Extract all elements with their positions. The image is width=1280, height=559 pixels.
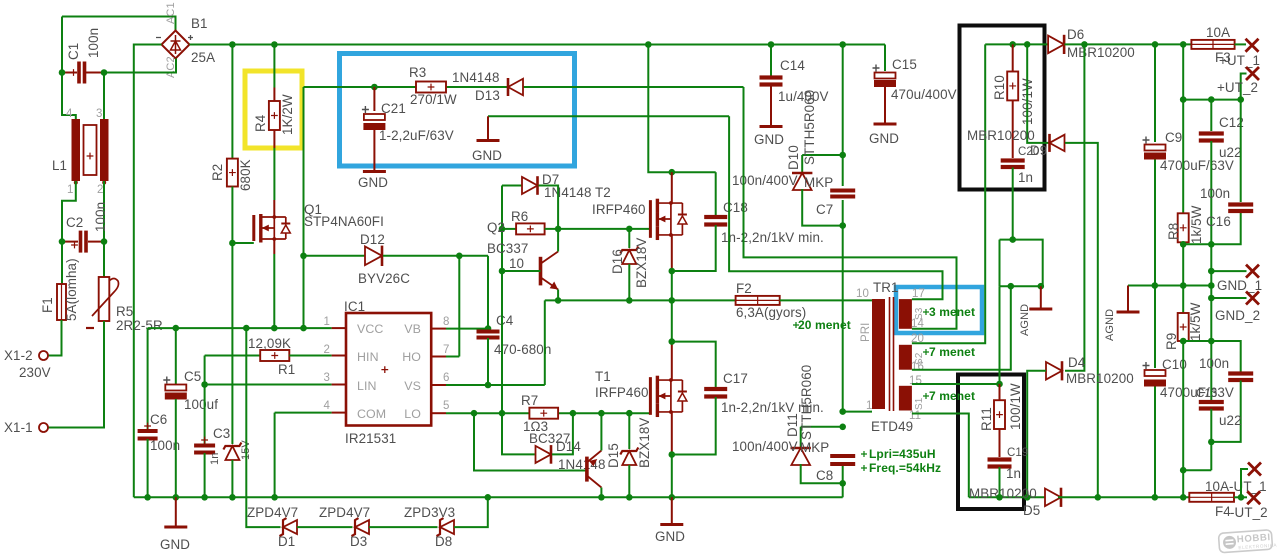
wire IC1 pin 6 stub [431,384,446,386]
svg-text:7: 7 [443,344,450,356]
svg-text:5A(lomha): 5A(lomha) [64,258,79,321]
wire AGND 2 stem [1127,286,1129,313]
wire minus rail left [969,496,1048,498]
svg-text:C8: C8 [816,468,833,483]
thermistor R5 [99,277,110,321]
svg-text:LO: LO [404,407,421,421]
svg-text:+UT_1: +UT_1 [1219,53,1260,68]
origin cross C1 [70,69,77,76]
svg-text:GND: GND [358,175,388,190]
svg-text:GND: GND [754,132,784,147]
wire +UT_2 row [1183,99,1241,101]
svg-text:4: 4 [66,108,73,120]
svg-text:4700uF/63V: 4700uF/63V [1160,158,1234,173]
pad +UT_2 [1246,67,1259,80]
node C2 right junction [101,238,108,245]
svg-text:X1-1: X1-1 [4,420,33,435]
wire rail to C9 [1154,44,1156,142]
node R10 rail junction [1009,41,1016,48]
resistor R6 [516,223,545,234]
node D4 bus junction [1024,494,1031,501]
svg-text:VCC: VCC [357,322,383,336]
wire zener chain left [246,328,280,527]
wire C1 to L1 pin 4 [62,73,76,120]
svg-text:T2: T2 [595,185,611,200]
node VCC R3 junction [300,325,307,332]
svg-text:1k/5W: 1k/5W [1189,205,1204,244]
svg-text:GND_2: GND_2 [1215,308,1260,323]
svg-text:C16: C16 [1206,214,1231,229]
capacitor C21 [364,114,385,120]
diode D7 [522,177,538,194]
svg-text:11: 11 [909,410,921,422]
wire bus to GND stem [175,497,177,527]
wire Q2 base column [501,186,503,455]
transistor Q2 [539,257,543,286]
wire link to minus rail [1183,469,1211,471]
node R11 top junction [996,381,1003,388]
fuse F1 [57,284,66,320]
svg-text:TR1: TR1 [873,280,899,295]
svg-text:MBR10200: MBR10200 [1066,371,1134,386]
node Q2 base junction [499,268,506,275]
wire F1 to X1-2 [48,320,62,356]
node C16 column junction [1237,96,1244,103]
wire T1 source to bus [671,455,673,498]
svg-text:MBR10200: MBR10200 [967,128,1035,143]
origin cross Lpri [861,451,867,457]
node F4 pad junction [1238,494,1245,501]
wire D7 anode [502,185,522,187]
blue highlight box around R3 C21 D13 [340,54,575,167]
wire filter node to L1 pin 3 [103,73,105,120]
wire T2 drain [671,172,673,204]
diode D5 [1045,489,1061,507]
node C2 left junction [59,238,66,245]
svg-text:6: 6 [443,372,450,384]
diode D10 [793,173,812,190]
svg-text:Q2: Q2 [487,220,505,235]
resistor R11 [994,400,1005,429]
wire C14 to GND [770,85,772,127]
wire COM row to IC1 pin 4 [275,412,332,414]
bridge rectifier B1 [162,31,190,59]
wire D4 anode to minus rail [1027,371,1046,498]
node source VCC junction [271,325,278,332]
transformer TR1 [872,299,885,409]
zener diode D2 15V [225,446,239,460]
wire GND to S3 pin 17 [729,116,942,299]
node C5 bus junction [173,494,180,501]
wire to D16 [628,229,630,248]
fuse F4 [1189,493,1234,502]
svg-text:GND: GND [869,131,899,146]
wire R1 left [205,355,261,357]
wire S1 pin 11 down [912,414,969,498]
node pin8 C4 junction [485,325,492,332]
svg-text:12,09K: 12,09K [248,336,291,351]
wire down to C3 [204,385,206,446]
zener diode D3 [355,520,369,534]
diode D14 [536,446,552,463]
svg-text:MKP: MKP [800,440,829,455]
wire D8 to bus [454,497,488,527]
wire Q2 emitter to mid rail [557,290,559,301]
wire R9 to minus rail [1182,341,1184,497]
wire R8 to R9 [1182,242,1184,313]
wire gnd net row [488,115,729,117]
node C5 top junction [173,325,180,332]
svg-text:D6: D6 [1067,27,1084,42]
wire rail to C14 [770,45,772,76]
ground symbol left [164,526,187,529]
zener diode D8 [440,520,454,534]
wire C20 bottom lead [1012,168,1014,240]
svg-text:STP4NA60FI: STP4NA60FI [304,214,384,229]
svg-text:COM: COM [357,407,386,421]
wire T1 source [671,411,673,455]
svg-text:PRI: PRI [860,323,872,342]
wire T2 source [671,234,673,271]
svg-text:ZPD3V3: ZPD3V3 [404,505,455,520]
svg-text:7 menet: 7 menet [929,345,975,359]
ground symbol under C21 [363,170,386,173]
svg-text:B1: B1 [191,16,208,31]
node GND_1 junction [1208,268,1215,275]
svg-text:L1: L1 [52,158,67,173]
wire IC1 pin 8 stub [431,328,446,330]
wire rail corner to C15 [884,45,886,72]
origin cross 7 menet S2 [923,349,929,355]
wire D11 bottom loop [801,464,843,483]
transistor driver PNP [585,457,589,482]
svg-text:1n: 1n [209,453,221,465]
svg-text:C1: C1 [66,43,81,60]
wire half-bridge mid rail [545,299,736,301]
wire D14 cathode loop [552,413,573,454]
wire R11 top lead [999,384,1001,400]
node base drive junction [471,410,478,417]
zener diode D16 [622,250,636,264]
svg-text:ETD49: ETD49 [871,419,913,434]
svg-text:4: 4 [324,400,331,412]
wire bus to GND center [671,497,673,524]
capacitor C14 [760,75,783,79]
node R8 bottom junction [1180,241,1187,248]
svg-text:R7: R7 [521,393,538,408]
capacitor C22 u22 [1199,400,1224,404]
wire COM down to bus [274,413,276,498]
node T1 drain junction [669,338,676,345]
pad GND_1 [1246,265,1259,278]
svg-text:1: 1 [866,400,873,412]
wire D13 to S3 pin 14 [744,87,957,329]
svg-text:D3: D3 [350,534,367,549]
wire L1 pin 2 to C2 right [103,181,105,242]
svg-text:1k/5W: 1k/5W [1188,302,1203,341]
wire D15 to bus [628,465,630,497]
capacitor C3 [194,444,215,448]
svg-text:D5: D5 [1023,503,1040,518]
svg-text:+UT_2: +UT_2 [1217,80,1258,95]
node R8 rail junction [1180,41,1187,48]
wire R6 to T2 gate [545,228,651,230]
wire S2 pin 20 to rectifier rail [912,44,985,343]
wire C2 right lead [88,241,104,243]
svg-text:C19: C19 [1007,447,1028,459]
wire VS row [446,384,545,386]
node LIN junction [201,381,208,388]
svg-text:C13: C13 [1196,388,1217,400]
wire D6 to fuse F3 [1065,43,1192,45]
node AGND junction b [1038,283,1045,290]
wire C1 right lead [86,72,104,74]
svg-text:u22: u22 [1219,413,1242,428]
svg-text:17: 17 [912,288,925,300]
wire D10 bottom loop [802,189,843,226]
svg-text:1n: 1n [1018,170,1033,185]
node T1 bus junction [669,494,676,501]
diode D12 [365,246,382,265]
svg-text:100n: 100n [93,202,108,232]
svg-text:230V: 230V [19,365,51,380]
svg-text:D1: D1 [278,534,295,549]
wire IC1 pin 7 stub [431,356,446,358]
svg-text:6,3A(gyors): 6,3A(gyors) [736,305,806,320]
wire C16 top lead [1240,100,1242,202]
node zener chain junction [243,325,250,332]
capacitor C18 [704,215,727,219]
node D2 bus junction [229,494,236,501]
svg-text:X1-2: X1-2 [4,348,33,363]
diode D6 [1048,36,1064,54]
wire R11 to C19 [999,429,1001,457]
wire C18 top lead [715,172,717,215]
svg-text:20 menet: 20 menet [798,318,851,332]
wire snubber to primary bottom [842,200,844,412]
wire rail down to T2 drain row [648,45,715,173]
wire C2 left lead [62,241,78,243]
node T2 source junction [669,268,676,275]
capacitor C20 [1001,158,1025,162]
node Q1 gate junction [229,240,236,247]
node GND_2 junction [1208,295,1215,302]
svg-text:1n: 1n [1006,466,1021,481]
svg-text:3: 3 [96,108,103,120]
node Q2 emitter junction [555,297,562,304]
node R6 left junction [499,226,506,233]
svg-text:D14: D14 [556,439,581,454]
wire left vertical to C1 [61,17,63,73]
wire D2 to bus [231,460,233,497]
svg-text:C5: C5 [184,369,201,384]
wire IC1 pin 5 stub [431,412,446,414]
node R9 top junction [1180,282,1187,289]
wire C2 to F1 [61,242,63,284]
wire D7 cathode to R6 right [539,186,559,229]
svg-text:GND: GND [655,529,685,544]
svg-text:MKP: MKP [804,175,833,190]
ground symbol C14 [760,125,783,128]
svg-text:C9: C9 [1165,130,1182,145]
svg-text:GND_1: GND_1 [1217,278,1262,293]
svg-text:STTH5R060: STTH5R060 [799,365,814,440]
svg-text:5: 5 [443,400,450,412]
wire D3 to D8 [369,526,438,528]
pad -UT_2 [1247,491,1260,504]
origin cross C6 [144,423,151,430]
wire to D15 [628,413,630,449]
svg-text:HIN: HIN [357,350,379,364]
svg-text:VS: VS [404,379,421,393]
wire Q1 source [273,239,275,254]
wire C8 to bus [842,466,844,497]
wire C1 left lead [62,72,77,74]
wire C18 bottom to source [672,225,716,271]
capacitor C9 [1145,145,1166,151]
svg-text:3: 3 [324,372,331,384]
black highlight box around R10 C20 D9 [960,26,1045,190]
wire C20 to AGND [1000,240,1043,287]
ground symbol in blue box [477,139,500,142]
wire R3 node down to VCC [303,87,305,328]
capacitor C15 [875,73,896,79]
fuse F2 [736,296,780,305]
node C4 VS junction [485,382,492,389]
svg-text:R10: R10 [992,75,1007,100]
ground symbol center [660,523,683,526]
svg-text:D8: D8 [435,534,452,549]
diode D9 [1050,135,1065,152]
black highlight box around R11 C19 D5 [958,375,1024,510]
svg-text:BC337: BC337 [487,241,528,256]
svg-text:ZPD4V7: ZPD4V7 [247,505,298,520]
wire R2 to D2 [231,187,233,445]
resistor R1 [260,350,289,361]
node T2 drain junction [669,169,676,176]
svg-text:100n: 100n [86,28,101,58]
svg-text:R11: R11 [979,407,994,431]
pad GND_2 [1246,292,1259,305]
node driver emitter junction [598,410,605,417]
wire PNP emitter [600,413,602,450]
capacitor C13 100n [1228,371,1253,375]
svg-text:100n: 100n [1200,186,1230,201]
node D12 junction [300,253,307,260]
svg-text:1n-2,2n/1kV min.: 1n-2,2n/1kV min. [721,230,824,245]
wire link down [999,240,1001,287]
op-amp IC1 IR21531 box [346,313,431,426]
origin cross 7 menet S1 [923,393,929,399]
wire Q1 drain [273,200,275,217]
capacitor C19 [988,457,1012,461]
analog ground AGND 1 [1029,308,1052,311]
node D16 top junction [626,226,633,233]
node LO row junction [499,410,506,417]
wire Q2 collector [557,229,559,252]
wire HV top rail [190,44,886,46]
node C7 rail junction [839,41,846,48]
svg-text:GND: GND [160,537,190,552]
wire R4 bottom lead [273,130,275,148]
origin cross 20 menet [793,322,799,328]
node D15 bus junction [626,494,633,501]
svg-text:C2: C2 [66,215,83,230]
wire Q1 source to VCC row [273,254,275,328]
node T1 source junction [669,451,676,458]
svg-text:F4: F4 [1215,504,1231,519]
svg-text:VB: VB [404,322,421,336]
resistor R7 [529,408,558,419]
svg-text:IRFP460: IRFP460 [595,385,649,400]
node C8 bottom junction [839,480,846,487]
node u22 junction [1208,439,1215,446]
svg-text:S3: S3 [914,307,925,320]
wire gnd stem [487,116,489,140]
capacitor C10 [1145,370,1166,376]
wire C17 bottom to source [672,397,716,455]
wire GND_1 pad row [1211,270,1246,272]
node GND C12 junction [1208,282,1215,289]
node AGND junction a [1008,283,1015,290]
svg-text:C14: C14 [780,58,805,73]
wire rail to R8 [1182,44,1184,213]
node T2 drain rail junction [645,41,652,48]
wire u22 down [1210,409,1212,470]
node R2 rail junction [229,41,236,48]
wire VS up to mid rail [544,300,546,385]
wire to D11 [800,427,802,447]
node R4 rail junction [271,41,278,48]
blue highlight box around S3 winding [896,287,982,333]
svg-text:R3: R3 [409,65,426,80]
svg-text:C3: C3 [213,426,230,441]
svg-text:1K/2W: 1K/2W [280,94,295,135]
node primary pin1 junction [839,408,846,415]
capacitor C17 [704,387,727,391]
svg-text:-UT_2: -UT_2 [1230,505,1268,520]
node C1 left junction [59,69,66,76]
svg-text:D15: D15 [606,443,621,468]
node C12 bottom junction [1208,241,1215,248]
svg-text:D13: D13 [475,88,500,103]
wire D1 to D3 [297,526,353,528]
svg-text:100n/400V: 100n/400V [732,173,798,188]
svg-text:1N4148: 1N4148 [544,185,592,200]
svg-text:IR21531: IR21531 [345,431,396,446]
wire AC1 input to bridge [62,17,176,31]
node C9 GND junction [1152,282,1159,289]
wire S2 pin 16 to AGND row [912,286,1011,370]
svg-text:MBR10200: MBR10200 [1067,45,1135,60]
svg-text:S1: S1 [914,397,925,410]
diode D11 [791,448,810,465]
wire down to IC1 pin 7 [458,256,460,357]
wire R1 node down [204,356,206,385]
svg-text:270/1W: 270/1W [410,92,457,107]
pad -UT_1 [1248,463,1261,476]
node D9 bus junction [1095,494,1102,501]
svg-text:R1: R1 [278,362,295,377]
wire primary pin 1 row [843,411,872,413]
node D15 top junction [626,410,633,417]
wire C12 column down [1210,141,1212,400]
svg-text:D12: D12 [360,232,385,247]
svg-text:C21: C21 [381,101,406,116]
wire snubber branch [802,154,843,156]
wire C9 to C10 [1154,160,1156,369]
wire IC1 pin 4 stub [332,412,346,414]
